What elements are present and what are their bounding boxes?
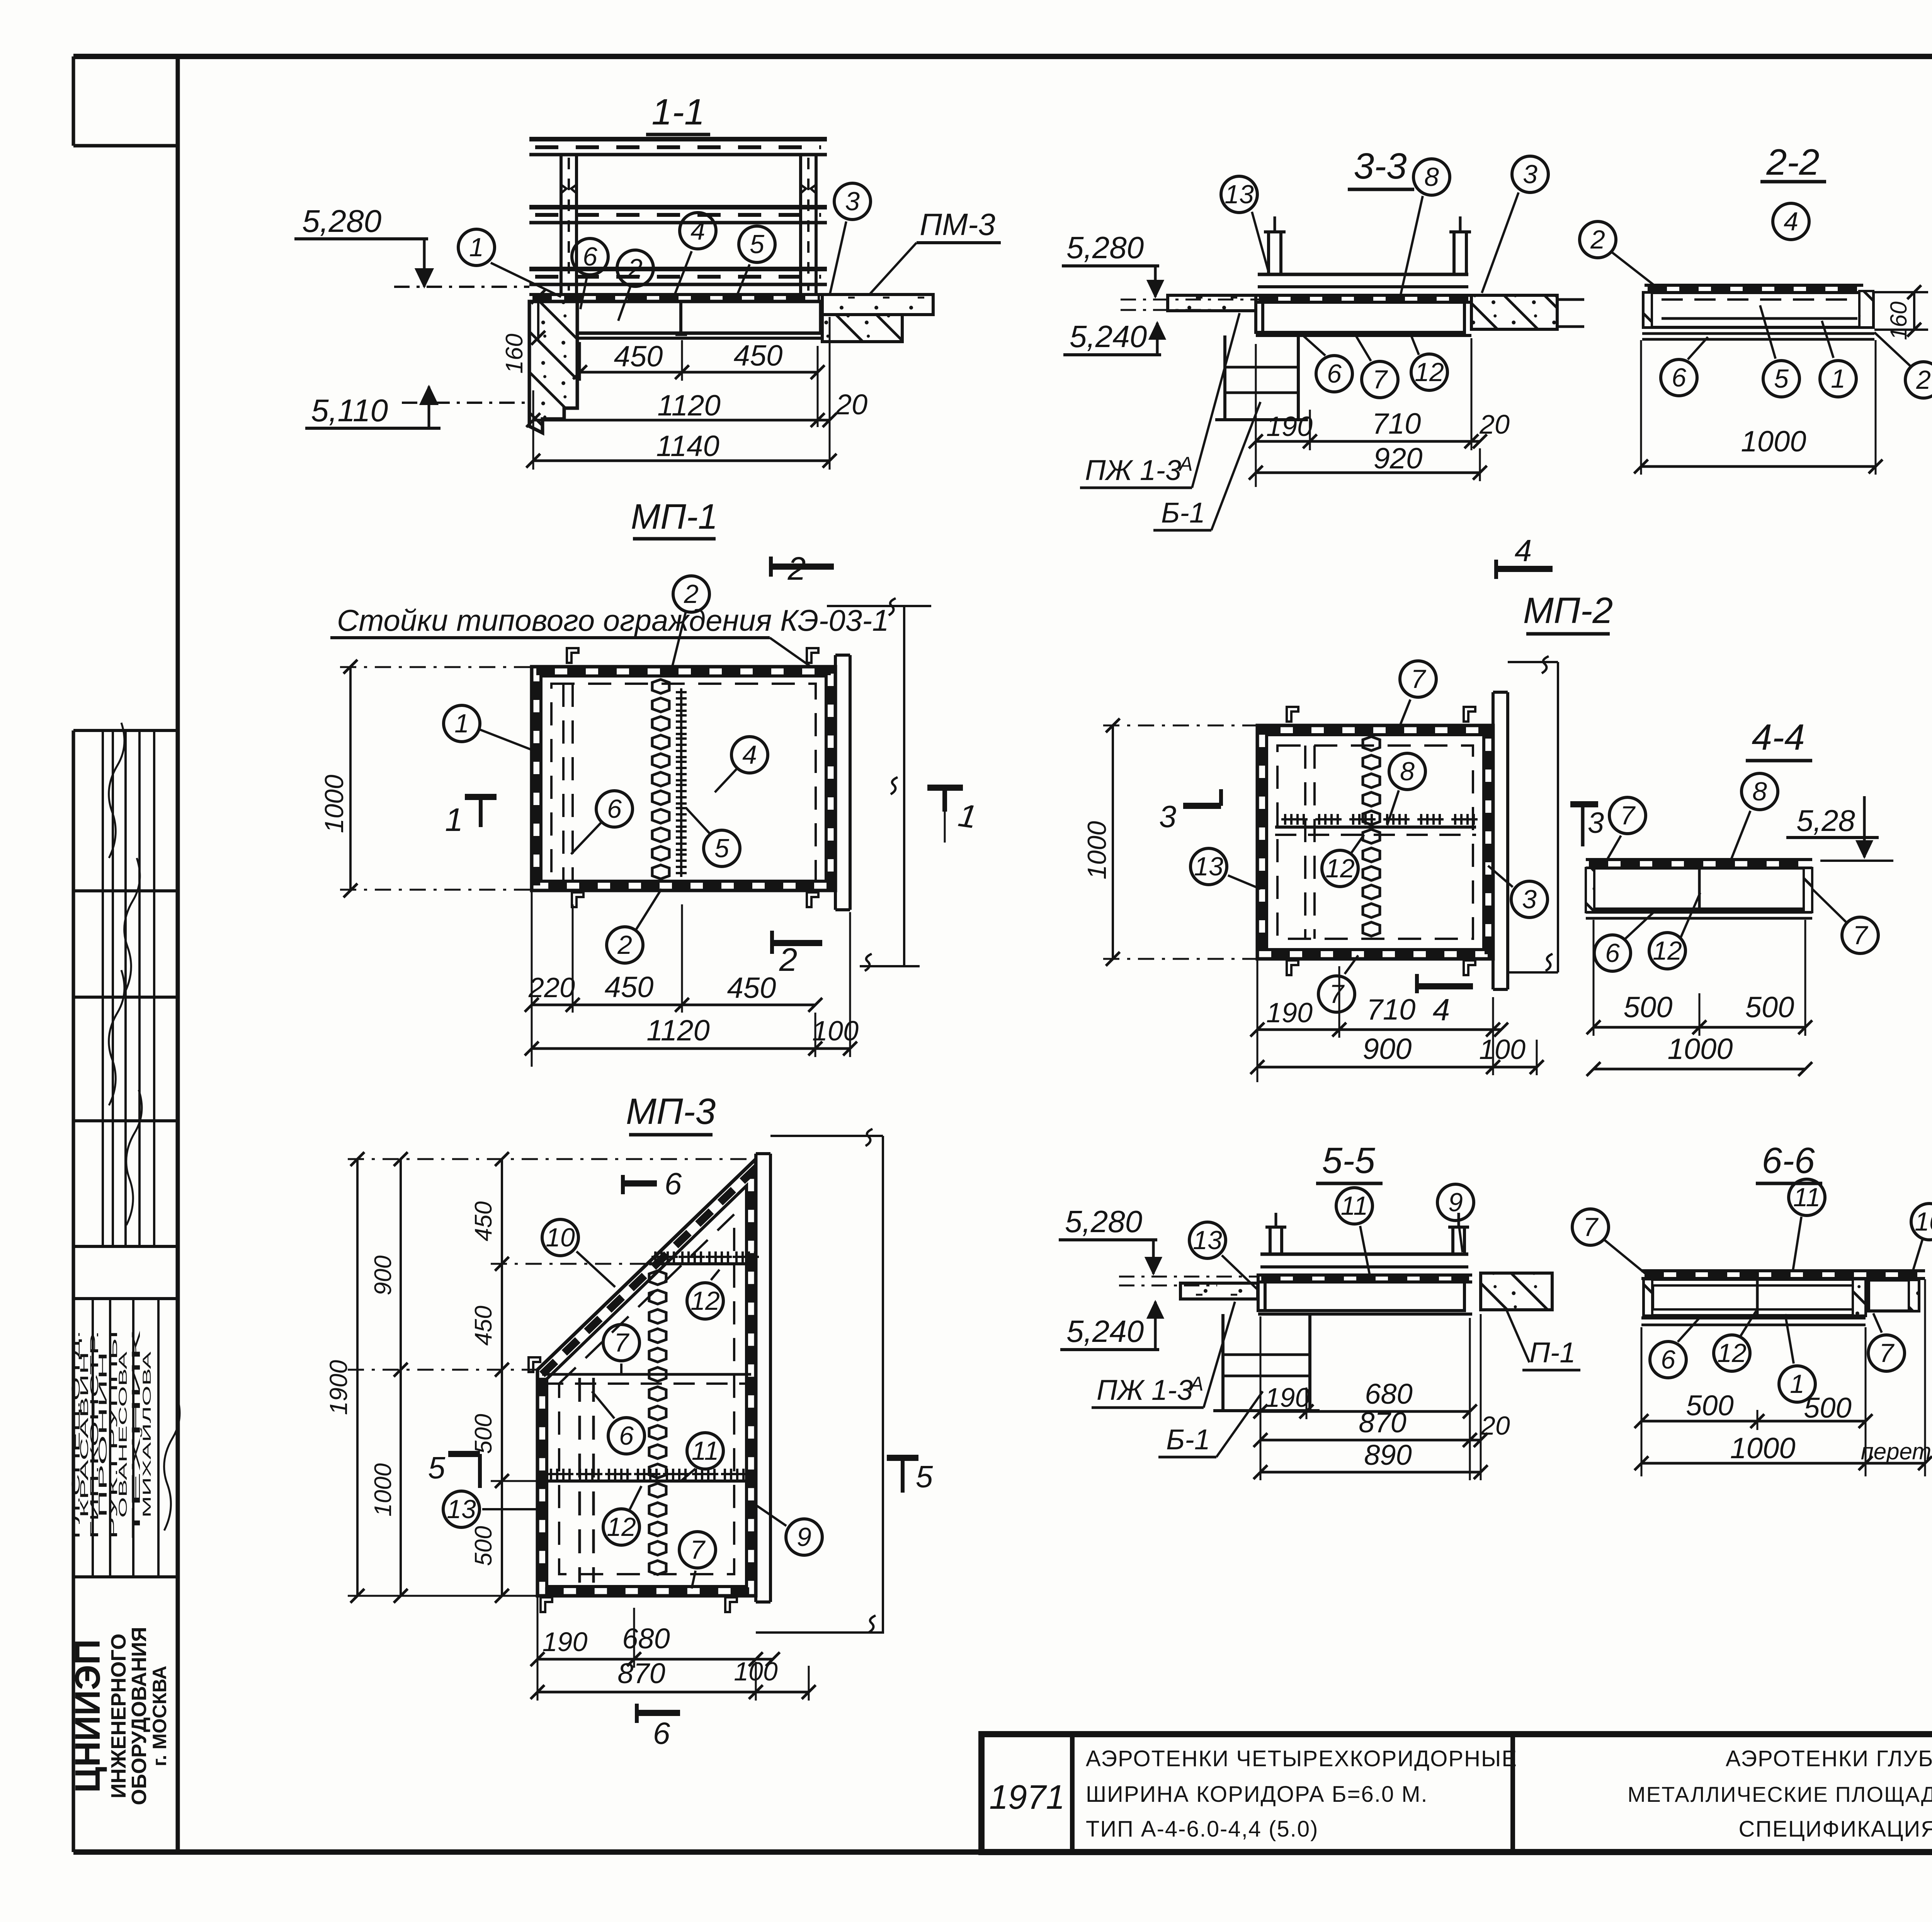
svg-text:7: 7 xyxy=(1879,1338,1895,1368)
svg-text:8: 8 xyxy=(1400,757,1415,786)
1-1 callout 6 xyxy=(572,238,608,275)
MP-2 chain seam xyxy=(1363,737,1380,751)
3-3 callout 7 xyxy=(1362,361,1398,398)
6-6 channel xyxy=(1644,1279,1866,1316)
svg-text:1000: 1000 xyxy=(370,1463,396,1517)
svg-text:МП-1: МП-1 xyxy=(631,497,718,536)
svg-text:7: 7 xyxy=(1853,921,1868,950)
svg-text:6: 6 xyxy=(653,1716,670,1750)
6-6 right extension piece xyxy=(1869,1280,1919,1311)
3-3 deck plate dashes xyxy=(1256,294,1471,297)
4-4 deck plate xyxy=(1586,858,1812,861)
svg-text:11: 11 xyxy=(1793,1183,1821,1212)
1-1 callout 3 xyxy=(834,183,871,220)
svg-text:4: 4 xyxy=(690,216,705,245)
1-1 right wall under slab xyxy=(822,315,902,342)
svg-text:МЕТАЛЛИЧЕСКИЕ ПЛОЩАДКИ МП-1; М: МЕТАЛЛИЧЕСКИЕ ПЛОЩАДКИ МП-1; МП-2; МП-3. xyxy=(1628,1782,1932,1806)
MP-1 plan border band xyxy=(532,667,835,890)
title block frame xyxy=(981,1734,1932,1852)
MP-2 callout 3 xyxy=(1511,881,1548,918)
svg-text:А: А xyxy=(1178,453,1193,475)
svg-text:1900: 1900 xyxy=(325,1360,352,1415)
MP-3 vertical strut xyxy=(578,1378,581,1583)
svg-text:2: 2 xyxy=(628,254,643,283)
MP-3 callout 7 lower xyxy=(679,1532,716,1568)
MP-2 inner dashed frame xyxy=(1277,746,1473,939)
svg-text:ПЖ 1-3: ПЖ 1-3 xyxy=(1085,454,1181,486)
svg-text:ЦНИИЭП: ЦНИИЭП xyxy=(68,1639,107,1793)
MP-3 left dims col3 xyxy=(356,1159,359,1596)
svg-text:900: 900 xyxy=(370,1255,396,1295)
svg-text:перет: перет xyxy=(1861,1439,1931,1464)
svg-text:710: 710 xyxy=(1372,407,1421,440)
MP-3 inner dashed frame xyxy=(559,1214,734,1574)
svg-text:1140: 1140 xyxy=(656,430,719,463)
1-1 deck expanded-metal plate xyxy=(529,293,822,296)
1-1 left concrete wall xyxy=(529,301,577,433)
svg-text:7: 7 xyxy=(1329,979,1345,1009)
5-5 posts xyxy=(1269,1227,1272,1254)
svg-text:6: 6 xyxy=(583,242,597,271)
svg-text:1971: 1971 xyxy=(989,1778,1065,1816)
3-3 right concrete slab xyxy=(1471,295,1557,329)
svg-text:5,28: 5,28 xyxy=(1796,804,1855,838)
svg-text:6: 6 xyxy=(619,1421,634,1450)
svg-text:6: 6 xyxy=(1327,359,1342,388)
svg-text:ТИП А-4-6.0-4,4 (5.0): ТИП А-4-6.0-4,4 (5.0) xyxy=(1086,1816,1318,1842)
svg-text:12: 12 xyxy=(1717,1338,1747,1368)
5-5 left end bracket xyxy=(1258,1275,1265,1311)
svg-text:4-4: 4-4 xyxy=(1752,717,1804,758)
MP-3 right edge plate strip xyxy=(754,1154,757,1602)
6-6 callout 11 xyxy=(1789,1179,1825,1216)
2-2 callout 1 xyxy=(1820,361,1856,397)
sheet top border xyxy=(73,54,1932,59)
svg-text:ПМ-3: ПМ-3 xyxy=(920,207,995,242)
svg-text:ИНЖЕНЕРНОГО: ИНЖЕНЕРНОГО xyxy=(107,1634,130,1799)
svg-text:9: 9 xyxy=(797,1522,811,1552)
svg-text:МП-3: МП-3 xyxy=(626,1091,716,1132)
svg-text:2: 2 xyxy=(787,550,806,587)
svg-text:680: 680 xyxy=(1365,1378,1412,1410)
MP-3 right breakline xyxy=(882,1136,884,1634)
svg-text:100: 100 xyxy=(812,1016,859,1047)
MP-3 dim extension lines xyxy=(348,1158,756,1160)
svg-text:Стойки типового ограждения КЭ-: Стойки типового ограждения КЭ-03-1 xyxy=(337,603,889,637)
3-3 callout 13 xyxy=(1221,176,1257,213)
MP-2 section mark 4 top xyxy=(1494,560,1498,579)
stamp column left edge lower segment xyxy=(72,730,75,1852)
svg-text:500: 500 xyxy=(1745,991,1794,1024)
6-6 end caps xyxy=(1644,1279,1652,1316)
svg-text:3: 3 xyxy=(845,187,860,216)
svg-text:1-1: 1-1 xyxy=(651,92,704,133)
1-1 handrail posts xyxy=(560,155,563,294)
svg-text:5: 5 xyxy=(750,230,764,259)
MP-2 section mark 4 bottom xyxy=(1415,974,1419,993)
svg-text:Б-1: Б-1 xyxy=(1161,497,1205,529)
svg-text:11: 11 xyxy=(1341,1191,1368,1221)
MP-3 callout 13 xyxy=(443,1491,480,1527)
MP-1 inner dashed frame xyxy=(551,684,816,881)
svg-text:7: 7 xyxy=(1372,365,1388,394)
MP-3 section 6 bottom xyxy=(635,1704,639,1723)
svg-text:900: 900 xyxy=(1363,1033,1412,1066)
svg-text:6: 6 xyxy=(665,1166,682,1201)
svg-text:190: 190 xyxy=(1266,411,1313,442)
svg-text:2: 2 xyxy=(1916,365,1931,395)
MP-2 section mark 3 left xyxy=(1183,803,1221,809)
1-1 deck channel beam xyxy=(577,301,821,333)
4-4 channel body xyxy=(1594,868,1805,909)
MP-3 callout 12 upper xyxy=(687,1283,723,1319)
svg-text:450: 450 xyxy=(470,1306,497,1345)
3-3 left end bracket xyxy=(1256,295,1263,332)
svg-text:20: 20 xyxy=(835,388,867,420)
svg-text:6: 6 xyxy=(1672,363,1686,392)
svg-text:1: 1 xyxy=(454,709,469,738)
svg-text:ПЖ 1-3: ПЖ 1-3 xyxy=(1097,1374,1193,1406)
svg-text:3-3: 3-3 xyxy=(1354,146,1406,187)
svg-text:7: 7 xyxy=(1620,801,1636,830)
MP-2 callout 7 bottom xyxy=(1318,976,1355,1012)
svg-text:2-2: 2-2 xyxy=(1766,142,1819,183)
MP-1 callout 6 xyxy=(596,791,633,827)
4-4 callout 7 left xyxy=(1609,797,1646,834)
6-6 callout 1 xyxy=(1779,1366,1815,1402)
MP-1 callout 1 xyxy=(444,705,480,742)
svg-text:5,280: 5,280 xyxy=(1066,230,1144,265)
MP-3 pentagon border xyxy=(537,1159,756,1596)
svg-text:190: 190 xyxy=(1266,998,1313,1028)
5-5 B-1 column xyxy=(1221,1314,1225,1411)
1-1 lower rail xyxy=(529,267,827,271)
svg-text:6: 6 xyxy=(1661,1345,1675,1374)
svg-text:3: 3 xyxy=(1588,807,1604,839)
svg-text:5-5: 5-5 xyxy=(1322,1140,1375,1181)
1-1 top handrail xyxy=(529,137,827,141)
4-4 callout 6 xyxy=(1594,935,1631,971)
MP-2 plan border band xyxy=(1257,725,1493,959)
svg-text:7: 7 xyxy=(614,1328,629,1357)
6-6 callout 6 xyxy=(1650,1341,1686,1378)
svg-text:11: 11 xyxy=(692,1436,719,1466)
3-3 posts xyxy=(1267,232,1270,274)
5-5 left slab PZh xyxy=(1180,1283,1258,1299)
MP-3 upper cross beam xyxy=(649,1262,753,1265)
svg-text:500: 500 xyxy=(1624,991,1673,1024)
MP-1 corner clips xyxy=(567,648,578,663)
svg-text:100: 100 xyxy=(1479,1034,1526,1065)
MP-3 callout 12 lower xyxy=(603,1509,639,1545)
MP-3 chain seam xyxy=(649,1271,666,1285)
4-4 callout 12 xyxy=(1649,933,1685,969)
svg-text:2: 2 xyxy=(1590,225,1605,254)
MP-3 bottom corner clips xyxy=(541,1597,552,1612)
svg-text:3: 3 xyxy=(1159,799,1177,834)
4-4 callout 7 right xyxy=(1842,917,1878,953)
svg-text:7: 7 xyxy=(1411,664,1426,694)
sheet bottom border xyxy=(73,1849,1932,1855)
6-6 callout 7 left xyxy=(1572,1209,1609,1245)
MP-1 section mark 2 bottom xyxy=(770,931,774,954)
svg-text:12: 12 xyxy=(1415,358,1444,387)
MP-2 corner clips xyxy=(1287,707,1298,722)
svg-text:12: 12 xyxy=(607,1512,636,1542)
stamp signature squiggle lower xyxy=(164,1395,180,1530)
1-1 callout 4 xyxy=(680,213,716,249)
MP-2 callout 8 xyxy=(1389,753,1425,790)
1-1 callout 2 xyxy=(617,250,653,286)
3-3 callout 8 xyxy=(1413,159,1450,195)
svg-text:1000: 1000 xyxy=(320,775,349,833)
svg-text:1: 1 xyxy=(1790,1369,1804,1399)
MP-2 right breakline verticals xyxy=(1557,662,1559,972)
MP-3 left dims col2 xyxy=(400,1159,402,1596)
2-2 callout 4 xyxy=(1773,203,1809,240)
svg-text:500: 500 xyxy=(1804,1392,1851,1424)
MP-2 weld ticks on beam xyxy=(1281,814,1308,825)
5-5 channel xyxy=(1265,1282,1464,1311)
MP-1 callout 2 bottom xyxy=(607,927,643,963)
svg-text:870: 870 xyxy=(617,1657,665,1689)
svg-text:ОВАНЕСОВА: ОВАНЕСОВА xyxy=(117,1352,129,1518)
6-6 callout 7 right xyxy=(1868,1335,1905,1371)
MP-1 section mark 1 right xyxy=(927,785,963,791)
3-3 callout 12 xyxy=(1411,354,1447,390)
svg-text:4: 4 xyxy=(1784,207,1798,236)
3-3 callout 6 xyxy=(1316,356,1352,392)
svg-text:1: 1 xyxy=(469,233,484,262)
svg-text:3: 3 xyxy=(1523,160,1537,189)
svg-text:П-1: П-1 xyxy=(1529,1336,1575,1369)
svg-text:7: 7 xyxy=(1583,1212,1599,1242)
svg-text:5: 5 xyxy=(916,1459,933,1494)
svg-text:4: 4 xyxy=(1515,533,1532,568)
stamp column main vertical xyxy=(176,56,180,1852)
svg-text:920: 920 xyxy=(1374,442,1423,475)
6-6 callout 10 xyxy=(1911,1204,1932,1240)
svg-text:450: 450 xyxy=(605,971,654,1004)
5-5 right slab P-1 xyxy=(1481,1273,1552,1310)
5-5 callout 13 xyxy=(1189,1222,1226,1258)
svg-text:СПЕЦИФИКАЦИЯ МЕТАЛЛА.: СПЕЦИФИКАЦИЯ МЕТАЛЛА. xyxy=(1738,1816,1932,1842)
5-5 callout 9 xyxy=(1437,1184,1474,1221)
svg-text:4: 4 xyxy=(1433,992,1450,1027)
MP-2 callout 7 top xyxy=(1400,661,1436,697)
MP-1 callout 4 xyxy=(731,737,768,773)
svg-text:5: 5 xyxy=(1774,364,1789,393)
svg-text:МП-2: МП-2 xyxy=(1523,590,1613,631)
svg-text:Б-1: Б-1 xyxy=(1166,1423,1210,1456)
svg-text:10: 10 xyxy=(1915,1207,1932,1236)
MP-2 right edge plate strip xyxy=(1492,692,1495,989)
svg-text:7: 7 xyxy=(690,1535,706,1564)
1-1 callout 1 xyxy=(458,229,495,266)
svg-text:20: 20 xyxy=(1479,409,1510,439)
svg-text:450: 450 xyxy=(734,339,783,372)
svg-text:12: 12 xyxy=(1653,936,1682,965)
svg-text:5: 5 xyxy=(428,1450,446,1485)
MP-3 callout 10 xyxy=(542,1219,578,1256)
svg-text:5,280: 5,280 xyxy=(302,204,381,239)
4-4 mid stiffener xyxy=(1698,868,1701,909)
MP-3 callout 6 xyxy=(608,1418,645,1454)
stamp column left edge top segment xyxy=(72,56,75,146)
svg-text:6-6: 6-6 xyxy=(1762,1140,1815,1181)
svg-text:МИХАЙЛОВА: МИХАЙЛОВА xyxy=(140,1352,153,1518)
svg-text:500: 500 xyxy=(470,1526,497,1566)
MP-3 section 5 right xyxy=(887,1455,918,1461)
svg-text:9: 9 xyxy=(1448,1188,1463,1217)
svg-text:710: 710 xyxy=(1367,993,1416,1026)
3-3 callout 3 xyxy=(1512,156,1548,192)
2-2 callout 2 right xyxy=(1905,362,1932,398)
svg-text:5,110: 5,110 xyxy=(311,393,388,428)
MP-1 callout 2 top xyxy=(673,576,709,612)
2-2 deck plate xyxy=(1645,284,1863,287)
svg-text:220: 220 xyxy=(528,972,575,1003)
svg-text:1: 1 xyxy=(445,802,463,838)
svg-text:г. МОСКВА: г. МОСКВА xyxy=(149,1666,170,1767)
svg-text:870: 870 xyxy=(1359,1406,1406,1439)
3-3 channel xyxy=(1263,302,1464,332)
MP-3 callout 11 xyxy=(687,1433,723,1469)
4-4 section mark 3 xyxy=(1570,801,1598,807)
MP-1 section mark 1 left xyxy=(465,794,497,800)
svg-text:3: 3 xyxy=(1522,885,1537,914)
svg-text:1000: 1000 xyxy=(1082,821,1112,879)
svg-text:1120: 1120 xyxy=(646,1014,709,1047)
stamp signature squiggles xyxy=(109,723,124,858)
svg-text:160: 160 xyxy=(501,334,528,373)
svg-text:2: 2 xyxy=(779,941,798,978)
svg-text:1000: 1000 xyxy=(1741,425,1806,458)
stamp top cell divider xyxy=(73,144,178,148)
svg-text:500: 500 xyxy=(470,1414,497,1454)
MP-1 weld tick column xyxy=(676,688,687,715)
MP-2 callout 12 xyxy=(1322,850,1358,887)
3-3 top angle bars xyxy=(1258,273,1468,276)
svg-text:1000: 1000 xyxy=(1667,1033,1733,1066)
svg-text:5,280: 5,280 xyxy=(1065,1204,1142,1239)
svg-text:1000: 1000 xyxy=(1730,1432,1795,1465)
MP-3 lower cross beam xyxy=(542,1479,751,1483)
MP-3 left dims col1 xyxy=(501,1159,503,1596)
6-6 deck plate xyxy=(1641,1269,1925,1272)
5-5 deck plate xyxy=(1258,1273,1472,1277)
MP-1 left channel dashed lines xyxy=(562,684,565,881)
svg-text:ШИРИНА КОРИДОРА Б=6.0 М.: ШИРИНА КОРИДОРА Б=6.0 М. xyxy=(1086,1782,1428,1807)
svg-text:450: 450 xyxy=(614,340,663,373)
MP-2 callout 13 xyxy=(1190,848,1227,885)
stamp signature sub columns xyxy=(102,730,104,1246)
MP-3 mid beam at corner level xyxy=(542,1373,751,1376)
MP-3 callout 9 xyxy=(786,1519,822,1555)
svg-text:5: 5 xyxy=(714,834,729,863)
6-6 mid stiffener xyxy=(1756,1279,1759,1316)
2-2 callout 2 left xyxy=(1580,221,1616,258)
svg-text:12: 12 xyxy=(1325,854,1355,883)
MP-3 callout 7 upper xyxy=(603,1324,639,1361)
1-1 channel stiffener xyxy=(679,301,682,333)
svg-text:А: А xyxy=(1189,1373,1204,1395)
svg-text:ОБОРУДОВАНИЯ: ОБОРУДОВАНИЯ xyxy=(128,1627,151,1805)
svg-text:2: 2 xyxy=(617,930,632,960)
2-2 callout 6 xyxy=(1661,359,1697,396)
stamp table horizontals xyxy=(73,729,178,732)
6-6 callout 12 xyxy=(1714,1335,1750,1371)
3-3 left slab PZh xyxy=(1168,295,1256,311)
svg-text:13: 13 xyxy=(1225,180,1254,209)
svg-text:680: 680 xyxy=(622,1622,670,1655)
MP-1 callout 5 xyxy=(704,830,740,867)
svg-text:2: 2 xyxy=(684,579,699,609)
svg-text:5,240: 5,240 xyxy=(1070,319,1147,354)
3-3 B-1 column xyxy=(1223,335,1226,420)
svg-text:12: 12 xyxy=(690,1286,720,1316)
svg-text:500: 500 xyxy=(1686,1389,1733,1421)
svg-text:10: 10 xyxy=(546,1223,575,1252)
svg-text:АЭРОТЕНКИ ГЛУБИНОЙ 4,4 М.: АЭРОТЕНКИ ГЛУБИНОЙ 4,4 М. xyxy=(1726,1746,1932,1771)
svg-text:190: 190 xyxy=(543,1627,588,1657)
5-5 top angle bars xyxy=(1260,1253,1468,1256)
svg-text:1120: 1120 xyxy=(657,389,720,422)
1-1 callout 5 xyxy=(739,226,775,262)
5-5 callout 11 xyxy=(1336,1188,1372,1224)
svg-text:190: 190 xyxy=(1265,1382,1310,1413)
svg-text:13: 13 xyxy=(1194,852,1223,881)
MP-1 right breakline xyxy=(903,606,905,966)
svg-text:4: 4 xyxy=(742,740,757,769)
svg-text:1: 1 xyxy=(1831,364,1845,393)
MP-3 section 6 top xyxy=(621,1175,625,1194)
1-1 middle rail xyxy=(529,205,827,209)
2-2 callout 5 xyxy=(1763,361,1799,397)
MP-1 right edge plate strip xyxy=(834,655,837,910)
svg-text:АЭРОТЕНКИ ЧЕТЫРЕХКОРИДОРНЫЕ: АЭРОТЕНКИ ЧЕТЫРЕХКОРИДОРНЫЕ xyxy=(1086,1746,1517,1771)
MP-3 top-left corner clip xyxy=(529,1357,540,1372)
svg-text:8: 8 xyxy=(1424,162,1439,192)
MP-1 section mark 2 top xyxy=(769,557,773,577)
svg-text:13: 13 xyxy=(1193,1226,1222,1255)
svg-text:6: 6 xyxy=(607,794,622,824)
svg-text:5,240: 5,240 xyxy=(1066,1314,1144,1348)
1-1 right slab PM-3 xyxy=(822,295,933,315)
MP-1 chain seam xyxy=(652,679,669,693)
svg-text:160: 160 xyxy=(1886,301,1912,340)
2-2 channel xyxy=(1643,293,1873,327)
4-4 callout 8 xyxy=(1742,773,1778,810)
svg-text:890: 890 xyxy=(1364,1439,1412,1471)
svg-text:450: 450 xyxy=(470,1201,497,1241)
MP-2 cross beam xyxy=(1275,826,1476,829)
2-2 end caps xyxy=(1643,293,1652,327)
svg-text:6: 6 xyxy=(1605,938,1620,968)
svg-text:8: 8 xyxy=(1752,777,1767,806)
MP-2 left channel dashed pair xyxy=(1304,746,1306,939)
svg-text:450: 450 xyxy=(727,972,776,1004)
4-4 end caps xyxy=(1586,868,1594,912)
svg-text:13: 13 xyxy=(447,1495,476,1524)
